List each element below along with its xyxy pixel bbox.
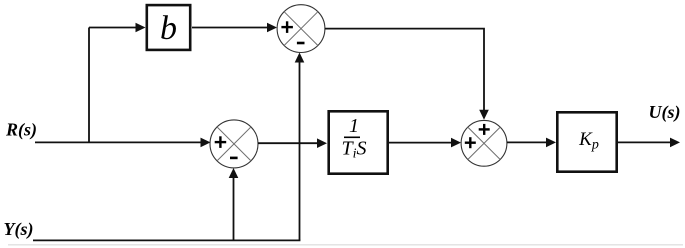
plus sign U3 left [465, 141, 476, 143]
svg-text:b: b [160, 10, 177, 47]
summing junction U1 (top) [277, 5, 325, 53]
node branch from R(s) line [88, 28, 90, 144]
block 1/TiS integrator [329, 111, 388, 173]
svg-text:Y(s): Y(s) [4, 219, 34, 240]
plus sign U3 top [479, 128, 490, 130]
wire U3 to Kp block [507, 138, 556, 148]
wire b to summing junction U1 [192, 23, 277, 33]
wire U2 output to integrator block [258, 138, 327, 148]
summing junction U2 (middle) [210, 120, 258, 168]
scan artifact line bottom [8, 244, 683, 246]
svg-text:1: 1 [349, 115, 359, 137]
minus sign U2 [230, 157, 238, 160]
summing junction U3 (right) [461, 120, 507, 166]
plus sign U1 [281, 26, 293, 28]
svg-text:U(s): U(s) [649, 102, 681, 123]
block b [147, 5, 190, 50]
wire integrator to U3 [389, 138, 461, 148]
wire R(s) input horizontal [35, 138, 211, 148]
wire branch to b block [89, 23, 146, 33]
minus sign U1 [297, 42, 305, 45]
wire Y(s) feedback up to U2 minus [229, 168, 239, 240]
wire Y(s) bottom line [33, 239, 300, 241]
block Kp [557, 112, 616, 171]
svg-text:R(s): R(s) [5, 119, 37, 140]
wire U1 output to right then down to U3 [325, 29, 489, 120]
wire Kp output to U(s) [618, 138, 680, 148]
plus sign U2 [215, 141, 227, 143]
wire Y(s) feedback up to U1 minus [295, 53, 305, 241]
